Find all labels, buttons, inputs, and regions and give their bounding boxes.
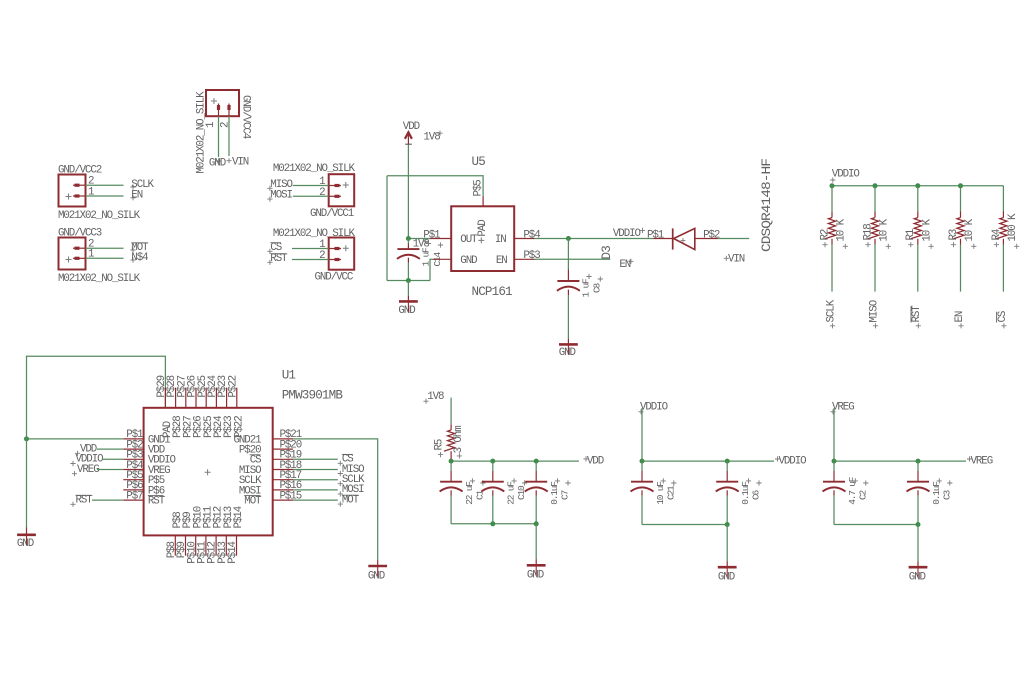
node junction VDDIO rail 4 [958,183,963,188]
connector GND/VCC2 body [59,175,86,207]
U1 pin P$6 [123,489,143,491]
svg-text:MOSI: MOSI [270,190,292,202]
node junction VDDIO rail 1 [830,183,835,188]
U1 pin P$11 [205,535,207,555]
wire VDD to U5 OUT junction [407,145,409,239]
U1 pin P$19 [273,458,293,460]
wire VDDIO rail to R3 [960,186,962,212]
node junction VDDIO rail bank2 1 [640,459,645,464]
svg-text:R18: R18 [862,224,874,241]
svg-text:P$4: P$4 [523,229,540,241]
svg-text:GND: GND [209,157,226,169]
svg-text:C8: C8 [592,282,603,293]
svg-text:EN: EN [131,190,142,202]
net label EN [130,195,135,200]
U5 pin P$1 (OUT) [430,238,451,240]
svg-text:RST: RST [911,305,923,323]
svg-text:P$5: P$5 [473,180,485,197]
wire MOSI from U1 P$16 [293,489,338,491]
U1 pin P$5 [123,479,143,481]
diode D3 [653,238,672,240]
svg-text:MOT: MOT [342,494,360,506]
svg-text:C2: C2 [857,489,868,500]
svg-text:GND: GND [17,538,34,550]
svg-text:P$22: P$22 [227,375,239,397]
wire VREG to U1 P$4 [97,469,123,471]
U1 pin P$12 [215,535,217,555]
connector GND/VCC2 origin + [66,194,72,200]
connector GND/VCC2 pin 1 [73,195,86,197]
wire RST to U1 P$7 [92,499,123,501]
svg-text:C1: C1 [475,489,486,500]
U1 pin P$9 [185,535,187,555]
svg-text:P$1: P$1 [647,230,664,242]
svg-text:P$2: P$2 [703,230,720,242]
connector GND/VCC1 origin + [343,182,349,188]
svg-text:0.1uF: 0.1uF [931,481,942,505]
wire C14 to gnd rail [407,263,409,281]
svg-text:GND: GND [909,571,926,583]
wire U1 gnd net up and over to P$29 [27,356,166,439]
net label MISO at U1 [338,471,343,476]
U1 pin P$16 [273,489,293,491]
capacitor C3 [917,461,919,471]
U1 pin P$28 [175,388,177,408]
svg-text:RST: RST [148,496,166,508]
svg-text:IN: IN [495,234,506,246]
wire MISO to GND/VCC1 pin 1 [293,185,329,187]
U1 pin P$27 [185,388,187,408]
wire gnd rail under U5 [387,280,430,282]
node junction 1V8 at cap C14 [406,236,411,241]
wire bank2 to ground [726,525,728,562]
U1 pin P$17 [273,479,293,481]
net label CS [267,249,272,254]
node junction VREG rail bank3 1 [832,459,837,464]
ground symbol below U5 [399,300,418,303]
svg-text:10 K: 10 K [879,218,891,241]
U1 pin P$10 [195,535,197,555]
net label MOSI at U1 [338,491,343,496]
U1 pin P$22 [236,388,238,408]
wire GND from GND/VCC4 pin 1 [218,116,220,157]
wire VREG rail bank 3 [834,460,966,462]
capacitor C10 [492,461,494,471]
wire R1 to RST [917,245,919,292]
node junction U1 gnd net [24,436,29,441]
svg-text:PAD: PAD [477,220,489,237]
svg-text:1 uF: 1 uF [581,278,592,298]
U5 origin + [478,237,484,243]
wire EN stub [535,258,611,260]
svg-text:CDSQR4148-HF: CDSQR4148-HF [760,159,774,252]
wire C8 to ground [567,295,569,339]
svg-text:3 Ohm: 3 Ohm [453,426,465,454]
ground symbol below U1 P$1 net [17,533,36,536]
wire bank3 to ground [917,525,919,562]
svg-text:C10: C10 [516,485,527,500]
net label VDDIO at U1 [70,461,75,466]
svg-text:2: 2 [319,187,325,199]
wire bank1 to ground [535,524,537,560]
svg-text:EN: EN [496,255,507,267]
svg-text:10 K: 10 K [964,218,976,241]
wire R2 to SCLK [831,245,833,292]
node junction gnd rail bank1 a [490,521,495,526]
U5 pin P$4 (IN) [514,238,534,240]
svg-text:VIN: VIN [728,254,745,266]
svg-text:NCP161: NCP161 [472,285,513,299]
node junction VDD rail 1 [449,459,454,464]
svg-text:GND: GND [460,255,477,267]
U1 pin P$2 [123,448,143,450]
svg-text:EN: EN [619,259,630,271]
net label VDDIO right bank 2 [775,456,780,461]
capacitor C14 [407,239,409,244]
connector GND/VCC3 pin 1 [73,257,86,259]
wire MOT from U1 P$15 [293,499,338,501]
net label RST at U1 [70,502,75,507]
node junction gnd rail bank1 b [534,521,539,526]
net label GND [216,158,221,163]
wire EN to GND/VCC2 pin 1 [86,195,124,197]
svg-text:GND: GND [368,571,385,583]
U1 pin P$1 [123,438,143,440]
net label MOT at U1 [338,502,343,507]
wire 1V8 to R5 [450,398,452,425]
connector GND/VCC4 pin 2 [228,104,230,117]
svg-text:1V8: 1V8 [427,391,444,403]
U1 origin + [205,469,211,475]
net label SCLK at U1 [338,481,343,486]
svg-text:VDD: VDD [403,121,420,133]
svg-text:EN: EN [954,311,966,322]
ground symbol bank 1 [527,564,546,567]
node junction gnd rail bank 2 [725,522,730,527]
ground symbol right of U1 [368,565,387,568]
wire VDDIO rail [832,185,1003,187]
wire VDDIO to U1 P$3 [102,458,123,460]
wire U1 P$1 to gnd junction [27,438,124,440]
wire VDDIO rail bank 2 [642,460,774,462]
svg-text:VDDIO: VDDIO [832,169,860,181]
svg-text:U1: U1 [282,369,296,383]
connector GND/VCC4 body [206,90,239,116]
svg-text:VIN: VIN [232,156,249,168]
svg-text:SCLK: SCLK [825,299,837,322]
resistor R18 [874,212,876,218]
svg-text:1: 1 [205,122,217,128]
svg-text:VDDIO: VDDIO [640,402,668,414]
svg-text:22 uF: 22 uF [506,481,517,505]
svg-text:VDDIO: VDDIO [613,228,641,240]
connector GND/VCC4 pin 1 [218,104,220,117]
svg-text:M021X02_NO_SILK: M021X02_NO_SILK [58,273,141,285]
U5 pin P$5 [482,196,484,206]
net label VDD at U1 [75,451,80,456]
U1 pin P$20 [273,448,293,450]
node junction gnd rail bank 3 [916,522,921,527]
svg-text:D3: D3 [600,246,614,260]
net label MOSI [267,197,272,202]
svg-text:10 K: 10 K [836,218,848,241]
svg-text:RST: RST [76,494,94,506]
net label VIN [226,158,231,163]
U1 pin P$4 [123,469,143,471]
node junction gnd rail [406,278,411,283]
U1 pin P$7 [123,499,143,501]
connector GND/VCC1 body [329,174,355,206]
svg-text:U5: U5 [472,155,486,169]
svg-text:P$14: P$14 [233,506,245,528]
svg-text:GND: GND [718,571,735,583]
resistor R5 [450,424,452,430]
wire CS from U1 P$19 [293,458,338,460]
wire gnd rail bank 2 [642,524,727,526]
capacitor C6 [726,461,728,471]
resistor R4 [1002,212,1004,218]
U1 pin P$23 [226,388,228,408]
wire MOT to GND/VCC3 pin 2 [86,247,124,249]
svg-text:R1: R1 [905,229,917,240]
connector GND/VCC2 pin 2 [73,184,86,186]
net label VREG at U1 [72,471,77,476]
U5 pin P$3 (EN) [514,258,534,260]
svg-text:VDDIO: VDDIO [779,455,807,467]
U1 pin P$14 [236,535,238,555]
svg-text:GND: GND [398,305,415,317]
U1 pin P$29 [164,388,166,408]
U1 pin P$3 [123,458,143,460]
wire RST to GND/VCC pin 2 [292,259,329,261]
IC U1 body [144,408,273,536]
wire R18 to MISO [874,245,876,292]
U1 pin P$24 [215,388,217,408]
net label CS at U1 [338,461,343,466]
wire junction to U5 P$1 [408,238,430,240]
net label VREG right bank 3 [967,456,972,461]
svg-text:P$14: P$14 [227,542,239,564]
resistor R1 [917,212,919,218]
svg-text:R3: R3 [948,229,960,240]
wire to U5 ground [407,281,409,296]
capacitor C7 [535,461,537,471]
svg-text:MOT: MOT [244,496,262,508]
wire VDDIO down bank 2 [641,408,643,461]
wire R4 to CS [1002,245,1004,292]
net label MOT [130,247,135,252]
wire gnd rail bank 1 [451,523,536,525]
svg-text:RST: RST [270,253,288,265]
U1 pin P$25 [205,388,207,408]
wire VIN from GND/VCC4 pin 2 [228,116,230,156]
svg-text:R4: R4 [991,229,1003,240]
connector GND/VCC origin + [343,245,349,251]
svg-text:C21: C21 [665,485,676,500]
U1 pin P$21 [273,438,293,440]
wire VIN stub [718,238,749,240]
connector GND/VCC3 origin + [66,257,72,263]
capacitor C2 [833,461,835,471]
net label VDD at bank 1 [583,456,588,461]
ground symbol below C8 [559,343,578,346]
resistor R2 [831,212,833,218]
ground symbol bank 3 [909,566,928,569]
wire VDDIO rail to R1 [917,186,919,212]
svg-text:GND/VCC: GND/VCC [315,272,354,284]
svg-text:VREG: VREG [971,455,993,467]
node junction VDD rail 2 [490,459,495,464]
svg-text:VDD: VDD [587,455,604,467]
svg-text:C6: C6 [751,489,762,500]
net label VIN [724,256,729,261]
net label N$4 [130,258,135,263]
wire VDDIO rail to R2 [831,186,833,212]
wire CS to GND/VCC pin 1 [292,248,329,250]
wire VDD rail bank 1 [451,460,579,462]
svg-text:0.1uF: 0.1uF [740,481,751,505]
svg-text:C3: C3 [941,489,952,500]
svg-text:VREG: VREG [77,464,99,476]
capacitor C21 [641,461,643,471]
svg-text:PMW3901MB: PMW3901MB [282,389,344,403]
svg-text:R2: R2 [819,229,831,240]
wire IN net to diode [535,238,654,240]
op-amp U5 body [451,206,514,271]
capacitor C8 [567,239,569,270]
wire U5 OUT loop to P$5 [387,176,483,196]
U1 pin P$13 [225,535,227,555]
node junction VREG rail bank3 2 [916,459,921,464]
wire VDDIO rail to R18 [874,186,876,212]
connector GND/VCC3 body [59,238,86,270]
U1 pin P$8 [174,535,176,555]
wire VDDIO rail to R4 [1002,186,1004,212]
wire U1 gnd net down to ground [26,439,28,528]
net label SCLK [130,184,135,189]
wire VDD to U1 P$2 [97,448,123,450]
net label RST [267,260,272,265]
node junction VDDIO rail 3 [915,183,920,188]
net label MISO [267,186,272,191]
wire U1 P$21 to ground right [293,439,378,560]
svg-text:MISO: MISO [868,300,880,322]
svg-text:GND/VCC1: GND/VCC1 [310,208,354,220]
wire VREG down bank 3 [833,408,835,461]
connector GND/VCC body [329,238,355,270]
connector GND/VCC3 pin 2 [73,247,86,249]
svg-text:GND: GND [527,570,544,582]
node junction VDDIO rail bank2 2 [725,459,730,464]
svg-text:0.1uF: 0.1uF [549,481,560,505]
svg-text:OUT: OUT [460,234,478,246]
svg-text:GND/VCC4: GND/VCC4 [240,95,252,139]
svg-text:GND: GND [559,347,576,359]
node junction VDDIO rail 2 [873,183,878,188]
svg-text:CS: CS [997,311,1009,322]
wire SCLK to GND/VCC2 pin 2 [86,184,124,186]
node junction VDD rail 3 [534,459,539,464]
svg-text:C7: C7 [560,490,571,500]
svg-text:M021X02_NO_SILK: M021X02_NO_SILK [58,210,141,222]
svg-text:R5: R5 [434,439,446,450]
node junction IN net at C8 [566,236,571,241]
wire gnd rail bank 3 [834,524,918,526]
svg-text:10 uF: 10 uF [655,481,666,505]
U1 pin P$18 [273,469,293,471]
U5 GND pin wire step [430,259,433,280]
svg-text:N$4: N$4 [131,252,148,264]
capacitor C1 [450,461,452,471]
svg-text:10 K: 10 K [922,218,934,241]
wire MOSI to GND/VCC1 pin 2 [293,195,329,197]
svg-text:2: 2 [319,250,325,262]
wire R3 to EN [960,245,962,292]
resistor R3 [960,212,962,218]
wire SCLK from U1 P$17 [293,479,338,481]
connector GND/VCC4 origin + [211,98,217,104]
U1 pin P$15 [273,499,293,501]
ground symbol bank 2 [718,566,737,569]
wire N$4 to GND/VCC3 pin 1 [86,257,124,259]
svg-text:P$3: P$3 [523,250,540,262]
svg-text:P$7: P$7 [126,490,143,502]
wire MISO from U1 P$18 [293,469,338,471]
svg-text:100 K: 100 K [1007,213,1019,242]
svg-text:M021X02_NO_SILK: M021X02_NO_SILK [273,163,356,175]
svg-text:22 uF: 22 uF [464,481,475,505]
U1 pin P$26 [195,388,197,408]
